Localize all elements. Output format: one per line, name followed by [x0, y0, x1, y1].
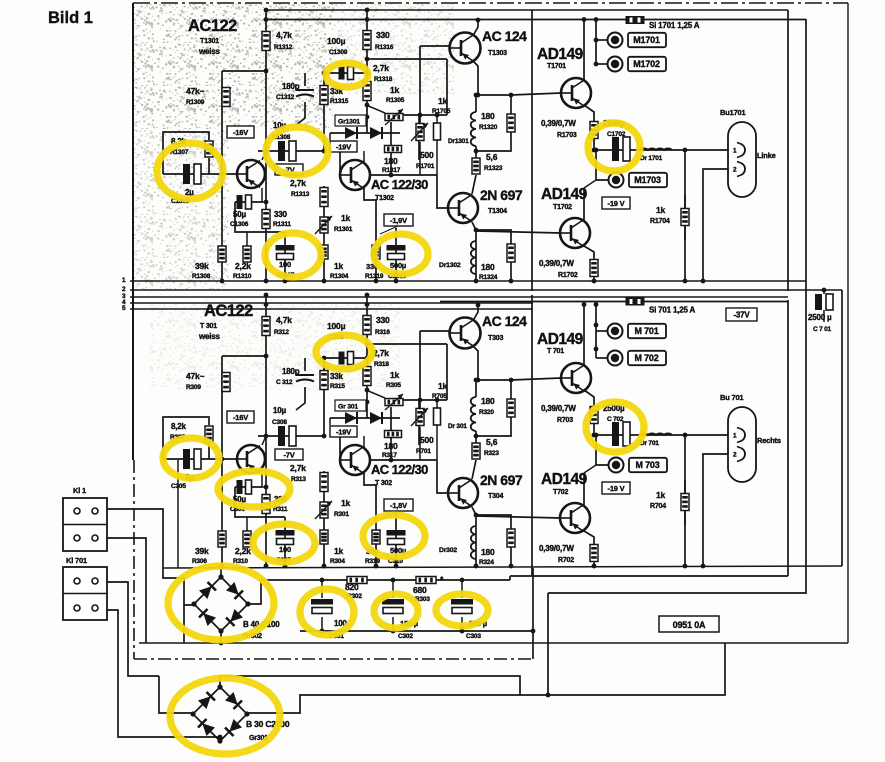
node — [365, 71, 370, 76]
wire col R1320 top — [510, 95, 512, 114]
svg-text:33k: 33k — [330, 372, 343, 381]
wire col Dr1302 — [475, 241, 477, 281]
svg-text:M1702: M1702 — [633, 59, 660, 69]
node bus — [474, 279, 479, 284]
wire col Dr1301 top — [475, 380, 477, 397]
wire C1306 drop — [235, 202, 285, 232]
wire output row — [594, 149, 728, 151]
terminal M 701 — [608, 324, 667, 339]
wire R1705 bottom stub — [436, 140, 438, 175]
node — [594, 347, 599, 352]
wire pot R1701 top — [419, 46, 421, 123]
node — [389, 173, 394, 178]
bridge rectifier Gr302 B40C100 — [191, 574, 250, 633]
node cap bottom — [391, 629, 396, 634]
svg-text:R1704: R1704 — [650, 218, 670, 225]
capacitor C1316 500u — [387, 245, 406, 260]
node — [365, 293, 370, 298]
svg-text:39k: 39k — [195, 546, 209, 556]
node bus — [394, 279, 399, 284]
wire T1302 collector — [364, 473, 376, 521]
svg-text:AC 124: AC 124 — [482, 28, 527, 44]
capacitor C307 100u — [276, 530, 295, 545]
wire R1704 col — [684, 195, 686, 240]
node — [418, 113, 423, 118]
wire col AC124 emitter — [474, 62, 478, 95]
wire AC124 collector — [474, 305, 478, 319]
terminal M1703 — [609, 173, 668, 188]
inductor Dr 701 — [640, 433, 672, 435]
node cap top — [320, 578, 325, 583]
node bus — [474, 564, 479, 569]
svg-text:C1312: C1312 — [276, 94, 295, 101]
wire R1307 bottom stub — [208, 158, 210, 174]
svg-text:180: 180 — [481, 262, 495, 272]
wire col Dr1301 bottom — [475, 146, 477, 158]
node — [476, 378, 481, 383]
potentiometer R305 1k — [385, 399, 403, 406]
connector KL701 — [63, 567, 107, 620]
node — [365, 115, 370, 120]
svg-text:R703: R703 — [557, 417, 573, 424]
svg-text:Gr 301: Gr 301 — [338, 404, 358, 411]
label -37V box — [726, 308, 757, 321]
node — [264, 354, 269, 359]
wire row T1702 base — [476, 231, 561, 233]
node bus — [264, 564, 269, 569]
potentiometer R1301 1k — [320, 217, 328, 233]
inductor Dr 1701 — [640, 148, 672, 150]
node bridge1 bottom — [219, 641, 224, 646]
wire cap stub top — [461, 580, 463, 598]
svg-text:R319: R319 — [365, 558, 380, 565]
svg-text:C303: C303 — [466, 633, 481, 640]
node — [594, 302, 599, 307]
svg-text:0,39/0,7W: 0,39/0,7W — [541, 119, 576, 128]
node bus — [374, 279, 379, 284]
wire col T1302 base — [339, 436, 341, 460]
transistor T 301 AC122 — [237, 445, 265, 473]
inductor Dr1302 — [471, 241, 476, 274]
wire T1301 collector — [262, 151, 266, 160]
wire row T1702 base — [476, 516, 561, 518]
bus line 5 — [130, 308, 533, 310]
highlight C1309 — [326, 63, 368, 87]
svg-text:R1315: R1315 — [330, 98, 349, 105]
svg-text:M 701: M 701 — [634, 326, 658, 336]
wire rail drop right — [509, 576, 511, 580]
capacitor C303 500u — [451, 599, 473, 614]
node — [582, 17, 587, 22]
resistor R304 1k — [320, 530, 328, 544]
node — [474, 513, 479, 518]
wire diode row — [330, 132, 400, 134]
svg-text:1k: 1k — [341, 498, 351, 508]
transistor T702 AD149 — [560, 503, 590, 533]
svg-text:-1,8V: -1,8V — [390, 501, 407, 510]
wire C1308 row — [258, 150, 324, 152]
wire rail RC filter — [320, 579, 510, 581]
wire col x548 — [547, 593, 549, 695]
wire T1304 emitter join — [472, 222, 476, 241]
wire R1310 top — [246, 232, 248, 246]
resistor R311 330 — [262, 495, 270, 514]
wire T1302 collector — [364, 188, 376, 236]
wire pot row — [403, 399, 447, 401]
svg-text:C 7 01: C 7 01 — [813, 326, 832, 333]
transistor T303 AC124 — [450, 318, 481, 349]
wire col x447 — [446, 344, 448, 400]
node — [509, 93, 514, 98]
node — [582, 302, 587, 307]
wire -1.9V leader — [380, 226, 398, 234]
frame bottom dash-dot — [134, 658, 533, 660]
svg-text:AC122: AC122 — [188, 17, 237, 35]
svg-text:Linke: Linke — [757, 151, 776, 160]
svg-text:R1305: R1305 — [386, 97, 405, 104]
wire col R1312 main — [265, 295, 267, 566]
svg-text:330: 330 — [376, 315, 390, 325]
frame left edge — [132, 3, 134, 460]
wire cap stub bottom — [321, 617, 323, 631]
node — [474, 378, 479, 383]
resistor R1323 5.6 — [472, 158, 480, 174]
inductor Dr302 — [471, 526, 476, 559]
svg-text:T 302: T 302 — [375, 480, 392, 487]
label -19V box — [330, 141, 357, 152]
svg-text:1: 1 — [733, 433, 737, 440]
transistor T 302 AC122/30 — [340, 445, 370, 475]
svg-text:Dr1301: Dr1301 — [448, 138, 469, 145]
wire C1309 row — [324, 72, 367, 74]
node bus — [701, 279, 706, 284]
svg-text:0,39/0,7W: 0,39/0,7W — [541, 404, 576, 413]
wire col R1323 bottom — [472, 460, 476, 479]
svg-text:1k: 1k — [438, 96, 448, 106]
svg-text:AD149: AD149 — [537, 46, 584, 63]
svg-text:5,6: 5,6 — [486, 437, 498, 447]
wire divider mid — [531, 295, 533, 576]
wire row y59 — [367, 58, 447, 60]
node — [264, 302, 269, 307]
svg-text:100µ: 100µ — [327, 36, 346, 46]
svg-text:T1302: T1302 — [375, 195, 394, 202]
channel box bottom-left edge — [177, 460, 179, 568]
wire KL701 pin1 — [107, 582, 159, 676]
node bus — [374, 564, 379, 569]
wire cap stub top — [321, 580, 323, 598]
wire pot R1701 top — [419, 331, 421, 408]
wire M1701 stub — [596, 39, 607, 41]
node — [322, 356, 327, 361]
svg-text:Kl 701: Kl 701 — [66, 556, 87, 565]
wire speaker pin2 — [703, 169, 728, 281]
diode box Gr 301 — [335, 400, 366, 411]
svg-text:Dr 301: Dr 301 — [448, 423, 467, 430]
svg-text:R1308: R1308 — [192, 273, 211, 280]
wire col R1320 bottom — [476, 132, 511, 151]
resistor R1313 2.7k — [320, 188, 328, 207]
wire T1302 emitter up — [363, 151, 365, 162]
svg-text:4,7k: 4,7k — [276, 315, 292, 325]
resistor R324 180 — [507, 529, 515, 547]
wire row R1324 top — [476, 515, 511, 529]
capacitor C302 150u — [382, 599, 404, 614]
wire C1306 row — [235, 486, 262, 488]
wire R1307 loop — [163, 417, 209, 459]
svg-text:C1306: C1306 — [230, 221, 249, 228]
wire R1307 loop — [163, 132, 209, 174]
svg-text:100: 100 — [279, 260, 291, 269]
node — [594, 323, 599, 328]
svg-text:Rechts: Rechts — [757, 436, 781, 445]
svg-text:R1701: R1701 — [416, 163, 435, 170]
resistor R1315 33k — [320, 86, 328, 105]
node — [476, 303, 481, 308]
resistor R309 47k — [222, 373, 230, 392]
node — [683, 148, 688, 153]
svg-text:-16V: -16V — [233, 413, 248, 422]
wire T1702 collector — [583, 473, 585, 506]
svg-text:47k~: 47k~ — [186, 371, 205, 381]
wire KL1 pin2 run — [107, 538, 146, 643]
capacitor C310 500u — [387, 530, 406, 545]
svg-text:R313: R313 — [291, 476, 306, 483]
capacitor C306 50u — [237, 480, 252, 494]
wire KL701 pin2 — [107, 610, 219, 737]
svg-text:Bu 701: Bu 701 — [720, 393, 743, 402]
node — [476, 93, 481, 98]
svg-text:0,39/0,7W: 0,39/0,7W — [539, 544, 574, 553]
node bus — [322, 279, 327, 284]
wire T1702 collector h — [584, 465, 596, 473]
wire row R1324 top — [476, 230, 511, 244]
svg-text:100µ: 100µ — [327, 321, 346, 331]
label -7V box — [275, 449, 303, 460]
resistor R302 820 — [347, 577, 367, 584]
svg-text:-19V: -19V — [336, 142, 351, 151]
svg-text:C1702: C1702 — [607, 131, 626, 138]
transistor T1302 AC122/30 — [340, 160, 370, 190]
svg-text:39k: 39k — [195, 261, 209, 271]
wire T1701 collector — [583, 20, 585, 82]
svg-text:AD149: AD149 — [537, 331, 584, 348]
svg-text:R1320: R1320 — [479, 124, 498, 131]
label 0951 0A box — [659, 616, 719, 632]
wire AC124 base feed — [420, 330, 450, 332]
svg-text:R315: R315 — [330, 383, 345, 390]
svg-text:100: 100 — [279, 545, 291, 554]
terminal M1702 — [608, 57, 667, 72]
wire cap stub bottom — [461, 617, 463, 631]
svg-text:R305: R305 — [386, 382, 401, 389]
wire pot diag — [366, 390, 385, 398]
svg-text:R301: R301 — [334, 511, 349, 518]
potentiometer R701 500 — [416, 409, 424, 426]
wire M col — [595, 305, 597, 359]
svg-text:1k: 1k — [390, 85, 400, 95]
svg-text:M1703: M1703 — [634, 175, 661, 185]
svg-text:C1309: C1309 — [329, 49, 348, 56]
svg-text:M1701: M1701 — [633, 35, 660, 45]
wire M1701 stub — [596, 330, 607, 332]
wire row y59 — [367, 343, 447, 345]
wire col pot R1701 — [418, 117, 420, 160]
wire pot row — [403, 114, 447, 116]
svg-text:500: 500 — [420, 150, 434, 160]
svg-text:R701: R701 — [416, 448, 431, 455]
resistor R1318 2.7k — [363, 82, 371, 101]
label -1.9V box — [384, 499, 413, 511]
wire T1702 emitter — [584, 246, 594, 281]
resistor R310 2.2k — [243, 531, 251, 547]
svg-text:R1317: R1317 — [382, 167, 401, 174]
wire input cap row — [163, 458, 237, 460]
node — [474, 228, 479, 233]
svg-text:R312: R312 — [274, 329, 289, 336]
svg-text:AC122: AC122 — [204, 302, 253, 320]
wire pot diag — [366, 105, 385, 113]
svg-text:R320: R320 — [479, 409, 494, 416]
wire R1705 top stub — [436, 400, 438, 408]
highlight C1702 — [588, 123, 640, 171]
wire col R1315 — [323, 358, 325, 436]
resistor R1308 39k — [218, 246, 226, 262]
wire C1306 row — [235, 201, 262, 203]
wire bridge1 right run — [248, 580, 320, 604]
capacitor C308 10u — [278, 426, 296, 446]
svg-text:180: 180 — [481, 396, 495, 406]
frame outer top 2 — [265, 9, 788, 11]
svg-text:AD149: AD149 — [541, 186, 588, 203]
wire col AC124 emitter — [474, 347, 478, 380]
svg-text:R1309: R1309 — [186, 99, 205, 106]
svg-text:R1319: R1319 — [365, 273, 384, 280]
svg-text:Dr 1701: Dr 1701 — [640, 155, 663, 162]
wire diode row — [330, 417, 400, 419]
bus line 3 — [130, 296, 788, 298]
node — [594, 38, 599, 43]
wire speaker pin2 — [703, 454, 728, 566]
wire col R1313/R1301 — [323, 471, 325, 566]
transistor T1702 AD149 — [560, 218, 590, 248]
wire diode drop — [329, 133, 331, 140]
wire col R1312 main — [265, 10, 267, 281]
node — [264, 69, 269, 74]
svg-text:R1703: R1703 — [557, 132, 577, 139]
node — [220, 172, 225, 177]
bus line 2 — [130, 289, 842, 291]
svg-text:R323: R323 — [484, 450, 499, 457]
wire col R1320 top — [510, 380, 512, 399]
capacitor C301 100u — [311, 599, 333, 614]
node — [365, 400, 370, 405]
wire M col — [595, 20, 597, 65]
svg-text:8,2k: 8,2k — [171, 422, 187, 431]
svg-text:T 701: T 701 — [547, 348, 564, 355]
svg-text:T1304: T1304 — [488, 208, 507, 215]
wire col R1705 lower — [437, 175, 448, 208]
potentiometer R301 1k — [320, 502, 328, 518]
speaker Bu1701 — [728, 122, 756, 197]
wire col Dr1302 — [475, 526, 477, 566]
capacitor C1309 100u — [339, 67, 354, 80]
node bridge1 top — [219, 565, 224, 570]
node — [264, 293, 269, 298]
resistor R316 330 — [363, 316, 371, 335]
diode box Gr1301 — [335, 115, 366, 126]
svg-text:680: 680 — [413, 585, 427, 595]
transistor T1303 AC124 — [450, 33, 481, 64]
bus line 4 — [130, 302, 533, 304]
resistor R320 180 — [507, 399, 515, 417]
capacitor C1702 2500u — [612, 137, 630, 161]
svg-text:M 703: M 703 — [635, 460, 659, 470]
svg-text:2,7k: 2,7k — [373, 63, 389, 73]
svg-text:AC 124: AC 124 — [482, 313, 527, 329]
wire M1702 stub — [596, 357, 607, 359]
resistor R1702 0.39 — [590, 260, 598, 277]
resistor R1312 4.7k — [262, 32, 270, 51]
wire col R1705 lower — [437, 460, 448, 493]
capacitor C701 2500u — [815, 294, 833, 310]
node bus — [264, 279, 269, 284]
highlight Gr301 — [170, 678, 280, 754]
node — [474, 93, 479, 98]
resistor R1703 0.39 — [590, 122, 598, 139]
wire M1702 stub — [596, 63, 607, 65]
diode Gr1301 b — [370, 127, 382, 139]
node bus — [509, 564, 514, 569]
node — [594, 62, 599, 67]
wire C1312 down — [296, 102, 305, 125]
wire pots bottom row — [370, 459, 437, 461]
node — [365, 103, 370, 108]
svg-text:500µ: 500µ — [390, 261, 406, 270]
resistor R315 33k — [320, 371, 328, 390]
diode Gr 301 a — [345, 412, 357, 424]
node — [474, 434, 479, 439]
wire col x447 — [446, 59, 448, 115]
wire R1310 top — [246, 517, 248, 531]
svg-text:Si 701 1,25 A: Si 701 1,25 A — [649, 306, 695, 315]
svg-text:R1311: R1311 — [273, 221, 291, 228]
wire col C1307 — [284, 232, 286, 281]
wire M1703 col — [596, 150, 608, 180]
frame bottom wire — [139, 642, 848, 644]
highlight C305 — [163, 438, 219, 478]
svg-text:2,2k: 2,2k — [235, 261, 251, 271]
highlight C1307 — [265, 233, 321, 277]
svg-text:R704: R704 — [650, 503, 666, 510]
wire caps bottom line — [300, 630, 533, 632]
node bridge2 bottom join — [218, 735, 223, 740]
wire AC124 collector — [474, 20, 478, 34]
node — [592, 433, 597, 438]
node bus — [509, 279, 514, 284]
resistor R1309 47k — [222, 88, 230, 107]
resistor R1319 330 — [372, 245, 380, 259]
node bus — [220, 279, 225, 284]
capacitor C 312 180p — [296, 375, 314, 382]
resistor R1704 1k — [681, 209, 689, 226]
capacitor C1305 2u — [183, 164, 201, 184]
wire col R1319 — [375, 236, 377, 281]
speaker Bu 701 — [728, 407, 756, 482]
highlight C1308 — [266, 127, 328, 175]
node — [683, 433, 688, 438]
terminal M1701 — [608, 33, 667, 48]
